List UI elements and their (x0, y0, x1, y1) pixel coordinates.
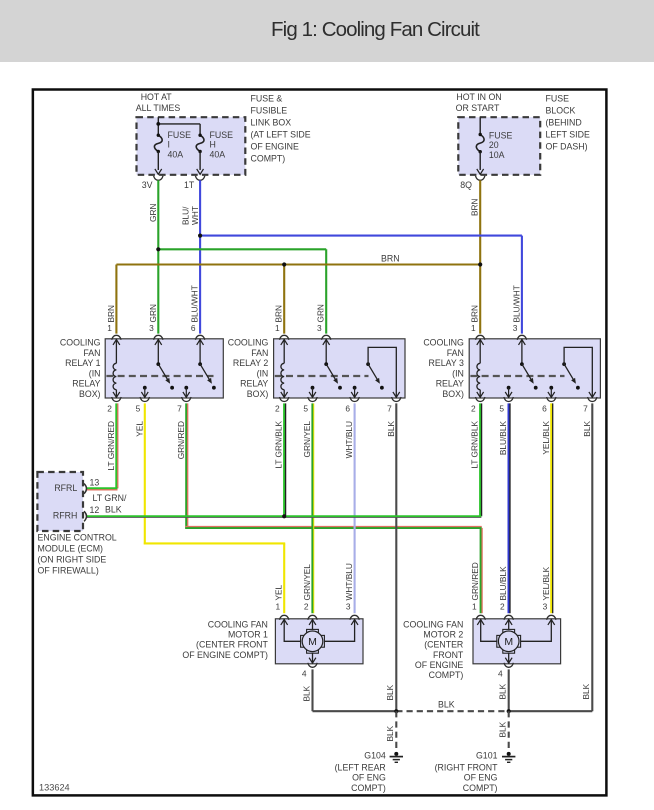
wire BLK relay3 pin7 down (591, 403, 593, 711)
relay 2 switch blade (324, 362, 328, 366)
relay 1 contact (184, 386, 188, 390)
svg-text:OF DASH): OF DASH) (546, 141, 588, 151)
svg-text:BOX): BOX) (79, 389, 101, 399)
svg-text:COMPT): COMPT) (351, 783, 386, 793)
svg-text:FAN: FAN (83, 348, 100, 358)
wire GRN bus (158, 248, 326, 250)
svg-text:OR START: OR START (456, 103, 500, 113)
svg-text:FUSE: FUSE (168, 130, 192, 140)
svg-text:WHT/BLU: WHT/BLU (344, 421, 354, 458)
svg-text:(CENTER: (CENTER (424, 640, 463, 650)
motor 2 internal wires (481, 619, 497, 642)
svg-text:40A: 40A (210, 149, 226, 159)
svg-text:4: 4 (498, 668, 503, 678)
svg-text:133624: 133624 (39, 783, 70, 793)
svg-text:BLK: BLK (581, 683, 591, 699)
svg-text:GRN/YEL: GRN/YEL (302, 564, 312, 601)
relay 2 coil (283, 339, 285, 364)
svg-text:7: 7 (177, 404, 182, 414)
relay 1 pin 7 bottom (182, 397, 191, 402)
svg-text:40A: 40A (168, 149, 184, 159)
relay 3 contact (507, 386, 511, 390)
motor 2 pin 2 (504, 615, 513, 620)
svg-text:BLK: BLK (498, 721, 508, 737)
svg-text:COMPT): COMPT) (429, 670, 464, 680)
svg-text:FUSE &: FUSE & (251, 93, 283, 103)
relay 3 switch blade (520, 362, 524, 366)
svg-text:H: H (210, 140, 216, 150)
wire feed inside fuse box (157, 117, 159, 135)
diagram frame (33, 90, 607, 796)
relay 1 switch blade (156, 362, 160, 366)
relay 2 pin7 internal wire (368, 347, 396, 398)
svg-text:1: 1 (107, 323, 112, 333)
svg-text:OF ENGINE COMPT): OF ENGINE COMPT) (182, 650, 268, 660)
svg-text:MOTOR 2: MOTOR 2 (423, 630, 463, 640)
relay box COOLING FAN RELAY 2 (274, 339, 405, 398)
svg-text:GRN/YEL: GRN/YEL (302, 421, 312, 458)
svg-text:BLU/BLK: BLU/BLK (498, 421, 508, 456)
svg-text:BLK: BLK (385, 725, 395, 741)
svg-text:FAN: FAN (447, 348, 464, 358)
svg-text:RELAY 3: RELAY 3 (429, 358, 464, 368)
svg-text:Fig 1: Cooling Fan Circuit: Fig 1: Cooling Fan Circuit (271, 18, 480, 41)
relay 3 pin 1 top (476, 335, 485, 340)
fuse H 40A (196, 135, 204, 151)
svg-text:5: 5 (136, 404, 141, 414)
svg-text:7: 7 (387, 404, 392, 414)
svg-text:YEL/BLK: YEL/BLK (541, 566, 551, 600)
svg-text:8Q: 8Q (460, 180, 472, 190)
ground G104 (394, 752, 398, 756)
wire BLU/WHT fuse H down (199, 180, 201, 333)
svg-text:BOX): BOX) (247, 389, 269, 399)
svg-text:(IN: (IN (452, 368, 464, 378)
svg-text:6: 6 (191, 323, 196, 333)
svg-text:COMPT): COMPT) (463, 783, 498, 793)
motor 1 pin 4 (309, 658, 316, 663)
svg-text:COOLING: COOLING (423, 338, 464, 348)
relay 2 pin 6 bottom (350, 397, 359, 402)
svg-text:WHT: WHT (190, 206, 200, 225)
relay 2 pin 1 top (280, 335, 289, 340)
svg-text:GRN/RED: GRN/RED (470, 562, 480, 600)
svg-text:M: M (308, 636, 317, 648)
relay 3 pin7 internal wire (564, 347, 592, 398)
svg-text:M: M (504, 636, 513, 648)
wire GRN/RED relay1 pin7 to motor2 pin1 (185, 403, 187, 529)
svg-text:OF FIREWALL): OF FIREWALL) (38, 566, 99, 576)
wire BLK dashed drop G104 (395, 711, 397, 748)
relay 2 switch blade (366, 362, 370, 366)
svg-text:BLU/WHT: BLU/WHT (190, 285, 200, 322)
svg-text:G104: G104 (364, 751, 386, 761)
svg-text:LT GRN/RED: LT GRN/RED (106, 421, 116, 470)
svg-text:(ON RIGHT SIDE: (ON RIGHT SIDE (38, 555, 107, 565)
ECM box (37, 472, 83, 531)
svg-text:OF ENG: OF ENG (352, 773, 386, 783)
svg-text:RELAY 1: RELAY 1 (65, 358, 100, 368)
relay 3 pin 6 bottom (547, 397, 556, 402)
svg-text:FAN: FAN (251, 348, 268, 358)
relay 1 pin 1 top (112, 335, 121, 340)
wire LT GRN/BLK relay3 pin2 down (479, 403, 481, 516)
svg-text:COMPT): COMPT) (251, 153, 286, 163)
svg-text:ENGINE CONTROL: ENGINE CONTROL (38, 532, 117, 542)
svg-text:10A: 10A (489, 150, 505, 160)
wire WHT/BLU relay2 pin6 to motor1 pin3 (354, 403, 356, 613)
svg-text:BLK: BLK (438, 700, 455, 710)
node blue junction (198, 234, 202, 238)
svg-text:5: 5 (303, 404, 308, 414)
node brown junction relay2 (282, 262, 286, 266)
svg-text:BRN: BRN (274, 305, 284, 323)
svg-text:COOLING FAN: COOLING FAN (403, 620, 463, 630)
svg-text:1: 1 (275, 323, 280, 333)
node brown junction fuse20 (478, 262, 482, 266)
motor 1 pin 1 (280, 615, 289, 620)
relay 1 contact (143, 386, 147, 390)
svg-text:4: 4 (302, 668, 307, 678)
svg-text:BRN: BRN (381, 254, 400, 264)
svg-text:FUSIBLE: FUSIBLE (251, 105, 288, 115)
connector arcs under fuse box (154, 176, 163, 181)
svg-text:LT GRN/BLK: LT GRN/BLK (274, 421, 284, 469)
svg-text:BLOCK: BLOCK (546, 105, 576, 115)
svg-text:3: 3 (543, 602, 548, 612)
relay 3 coil (479, 339, 481, 364)
svg-text:RELAY: RELAY (72, 379, 100, 389)
wire BRN fuse 20 down (479, 180, 481, 333)
relay 2 pin 3 top (322, 335, 331, 340)
svg-text:BLU/: BLU/ (181, 206, 191, 225)
svg-text:YEL/BLK: YEL/BLK (541, 421, 551, 455)
fuse 20 10A (479, 117, 481, 134)
svg-text:(AT LEFT SIDE: (AT LEFT SIDE (251, 129, 311, 139)
svg-text:BLK: BLK (385, 684, 395, 700)
svg-text:YEL: YEL (274, 584, 284, 600)
svg-text:2: 2 (471, 404, 476, 414)
svg-text:(LEFT REAR: (LEFT REAR (335, 762, 386, 772)
relay box COOLING FAN RELAY 1 (105, 339, 223, 398)
node BLK G104 junction (394, 709, 398, 713)
svg-text:ALL TIMES: ALL TIMES (136, 103, 181, 113)
wire BLK dashed bus (396, 710, 508, 712)
svg-text:HOT AT: HOT AT (141, 92, 173, 102)
svg-text:COOLING FAN: COOLING FAN (208, 620, 268, 630)
relay 1 coil (115, 339, 117, 364)
svg-text:7: 7 (583, 404, 588, 414)
svg-text:OF ENGINE: OF ENGINE (415, 660, 464, 670)
relay 3 pin 3 top (517, 335, 526, 340)
wire LT GRN/BLK relay2 pin2 down (283, 403, 285, 516)
svg-text:RELAY: RELAY (436, 379, 464, 389)
wire YEL relay1 pin5 to motor1 pin1 (144, 403, 146, 544)
svg-text:BLU/WHT: BLU/WHT (511, 285, 521, 322)
wire BLU/WHT bus (200, 235, 522, 237)
wire BLK motor1 pin4 (311, 669, 313, 711)
svg-text:BLK: BLK (498, 683, 508, 699)
node BLK G101 junction (507, 709, 511, 713)
svg-text:6: 6 (542, 404, 547, 414)
dashed mechanical link (275, 375, 369, 377)
dashed mechanical link (470, 375, 564, 377)
svg-text:3: 3 (149, 323, 154, 333)
svg-text:2: 2 (275, 404, 280, 414)
wire GRN/YEL relay2 pin5 to motor1 pin2 (311, 403, 313, 613)
svg-text:GRN: GRN (316, 304, 326, 322)
svg-text:OF ENG: OF ENG (464, 773, 498, 783)
fuse block FB (458, 117, 540, 175)
svg-text:BRN: BRN (470, 198, 480, 216)
connector arc under fuse block (476, 176, 485, 181)
wire BLK motor2 pin4 (508, 669, 510, 711)
svg-text:OF ENGINE: OF ENGINE (251, 141, 300, 151)
svg-text:LEFT SIDE: LEFT SIDE (546, 129, 590, 139)
svg-text:BLK: BLK (386, 421, 396, 437)
relay 2 pin 2 bottom (280, 397, 289, 402)
svg-text:YEL: YEL (134, 421, 144, 437)
fuse & fusible link box FL (137, 117, 246, 175)
relay 3 pin 5 bottom (504, 397, 513, 402)
relay 1 pin 6 top (195, 335, 204, 340)
svg-text:2: 2 (107, 404, 112, 414)
svg-text:LT GRN/: LT GRN/ (93, 493, 127, 503)
svg-text:1: 1 (471, 323, 476, 333)
motor 2 symbol (503, 629, 515, 634)
motor 1 internal wires (284, 619, 300, 642)
motor 2 pin 3 (547, 615, 556, 620)
wire BRN bus (116, 263, 480, 265)
svg-text:(CENTER FRONT: (CENTER FRONT (196, 640, 268, 650)
svg-text:3: 3 (317, 323, 322, 333)
node LT GRN/BLK junction (282, 514, 286, 518)
motor 1 pin 2 (308, 615, 317, 620)
relay 2 contact (353, 386, 357, 390)
ground G101 (507, 752, 511, 756)
node green junction (156, 247, 160, 251)
svg-text:(IN: (IN (257, 368, 269, 378)
svg-text:(BEHIND: (BEHIND (546, 117, 582, 127)
wire BLK dashed drop G101 (508, 711, 510, 748)
svg-text:13: 13 (90, 478, 100, 488)
svg-text:2: 2 (304, 602, 309, 612)
relay 2 contact (311, 386, 315, 390)
svg-text:I: I (168, 140, 170, 150)
svg-text:1: 1 (472, 602, 477, 612)
svg-text:BRN: BRN (470, 305, 480, 323)
svg-text:FUSE: FUSE (489, 131, 513, 141)
motor 1 symbol (307, 629, 319, 634)
svg-text:RFRL: RFRL (54, 483, 77, 493)
motor 1 pin 3 (350, 615, 359, 620)
svg-text:3: 3 (346, 602, 351, 612)
dashed mechanical link (106, 375, 213, 377)
svg-text:3V: 3V (142, 180, 153, 190)
svg-text:1T: 1T (184, 180, 195, 190)
motor box COOLING FAN MOTOR 2 (473, 619, 561, 664)
svg-text:RELAY 2: RELAY 2 (233, 358, 268, 368)
svg-text:6: 6 (345, 404, 350, 414)
svg-text:BLK: BLK (301, 685, 311, 701)
wire YEL/BLK relay3 pin6 to motor2 pin3 (550, 403, 552, 613)
header bar (0, 0, 654, 62)
svg-text:FUSE: FUSE (546, 93, 570, 103)
relay 1 pin 3 top (154, 335, 163, 340)
relay 1 switch blade (198, 362, 202, 366)
wire BLU/BLK relay3 pin5 to motor2 pin2 (508, 403, 510, 613)
motor box COOLING FAN MOTOR 1 (275, 619, 363, 664)
relay 2 pin 5 bottom (308, 397, 317, 402)
wire GRN fuse I to relay1 pin3 (157, 180, 159, 333)
svg-text:12: 12 (90, 505, 100, 515)
svg-text:FUSE: FUSE (210, 130, 234, 140)
svg-text:BOX): BOX) (442, 389, 464, 399)
svg-text:20: 20 (489, 140, 499, 150)
relay 2 pin 7 bottom (392, 397, 401, 402)
svg-text:BLU/BLK: BLU/BLK (498, 566, 508, 601)
relay 1 pin 2 bottom (112, 397, 121, 402)
svg-text:GRN: GRN (148, 204, 158, 222)
relay 3 switch blade (562, 362, 566, 366)
svg-text:(IN: (IN (89, 368, 101, 378)
svg-text:BLK: BLK (105, 504, 122, 514)
svg-text:COOLING: COOLING (60, 338, 101, 348)
svg-text:MODULE (ECM): MODULE (ECM) (38, 543, 104, 553)
svg-text:GRN: GRN (148, 304, 158, 322)
svg-text:GRN/RED: GRN/RED (176, 421, 186, 459)
wire LT GRN/RED relay1 pin2 to ECM RFRL (115, 403, 117, 488)
svg-text:FRONT: FRONT (433, 650, 464, 660)
wire BLK relay2 pin7 down (395, 403, 397, 711)
svg-text:5: 5 (499, 404, 504, 414)
svg-text:1: 1 (276, 602, 281, 612)
relay 3 pin 2 bottom (476, 397, 485, 402)
svg-text:RFRH: RFRH (53, 511, 77, 521)
relay 3 pin 7 bottom (588, 397, 597, 402)
fuse I 40A (154, 135, 162, 151)
relay 3 contact (549, 386, 553, 390)
svg-text:BLK: BLK (582, 421, 592, 437)
svg-text:RELAY: RELAY (240, 379, 268, 389)
svg-text:MOTOR 1: MOTOR 1 (228, 630, 268, 640)
svg-text:LINK BOX: LINK BOX (251, 117, 292, 127)
svg-text:2: 2 (500, 602, 505, 612)
motor 2 pin 1 (476, 615, 485, 620)
svg-text:3: 3 (513, 323, 518, 333)
motor 2 pin 4 (505, 658, 512, 663)
svg-text:BRN: BRN (106, 305, 116, 323)
svg-text:HOT IN ON: HOT IN ON (456, 92, 501, 102)
ECM pin 13 connector (84, 484, 87, 494)
wire LT GRN/BLK ECM RFRH bus (87, 515, 481, 517)
svg-text:(RIGHT FRONT: (RIGHT FRONT (435, 762, 499, 772)
svg-text:LT GRN/BLK: LT GRN/BLK (470, 421, 480, 469)
ECM pin 12 connector (84, 511, 87, 521)
svg-text:G101: G101 (476, 751, 498, 761)
relay 1 pin 5 bottom (140, 397, 149, 402)
relay box COOLING FAN RELAY 3 (469, 339, 600, 398)
svg-text:COOLING: COOLING (228, 338, 269, 348)
svg-text:WHT/BLU: WHT/BLU (344, 563, 354, 600)
